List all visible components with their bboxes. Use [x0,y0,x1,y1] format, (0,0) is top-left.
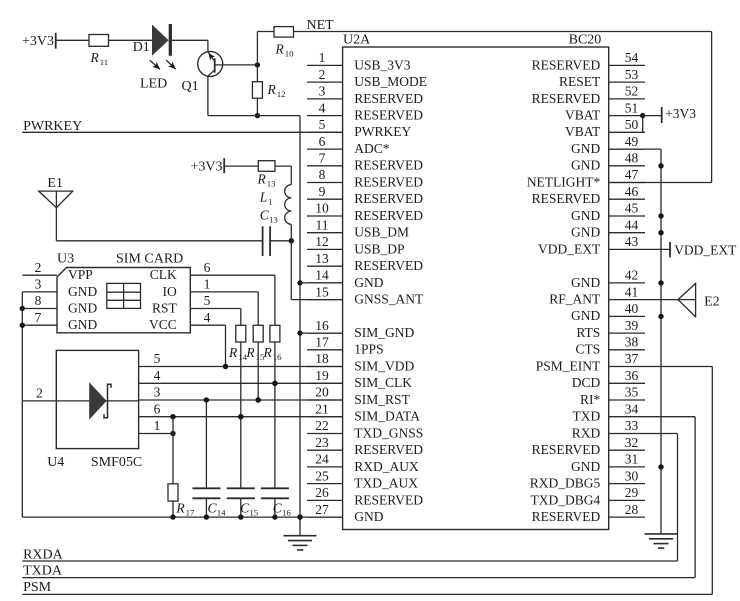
svg-text:USB_3V3: USB_3V3 [354,57,411,72]
svg-text:30: 30 [625,468,639,483]
svg-text:RESERVED: RESERVED [532,442,601,457]
svg-text:RESERVED: RESERVED [532,191,601,206]
svg-text:LED: LED [140,76,167,91]
svg-text:41: 41 [625,284,639,299]
svg-text:38: 38 [625,335,639,350]
svg-text:13: 13 [267,179,276,189]
svg-text:6: 6 [154,401,161,416]
svg-text:20: 20 [315,385,329,400]
svg-text:SIM_GND: SIM_GND [354,325,414,340]
svg-text:R: R [275,42,285,57]
svg-text:TXD_AUX: TXD_AUX [354,476,418,491]
svg-text:5: 5 [319,117,326,132]
svg-text:RESERVED: RESERVED [354,91,423,106]
svg-text:ADC*: ADC* [354,141,390,156]
svg-text:R: R [228,345,238,360]
svg-text:RESERVED: RESERVED [354,191,423,206]
svg-text:CLK: CLK [150,267,177,282]
svg-text:GND: GND [571,208,600,223]
svg-text:USB_MODE: USB_MODE [354,74,427,89]
svg-text:E1: E1 [47,176,63,191]
svg-text:37: 37 [625,351,639,366]
svg-text:14: 14 [315,268,329,283]
svg-text:VBAT: VBAT [565,124,601,139]
svg-text:VPP: VPP [68,267,93,282]
svg-text:23: 23 [315,435,329,450]
svg-text:5: 5 [204,293,211,308]
svg-text:15: 15 [249,508,258,518]
svg-text:GND: GND [68,300,97,315]
svg-text:TXD: TXD [573,409,601,424]
svg-text:9: 9 [319,184,326,199]
svg-text:52: 52 [625,84,639,99]
svg-text:GNSS_ANT: GNSS_ANT [354,292,424,307]
svg-text:16: 16 [315,318,329,333]
svg-text:46: 46 [625,184,639,199]
svg-text:2: 2 [35,260,42,275]
svg-text:16: 16 [273,352,282,362]
svg-text:7: 7 [319,151,326,166]
svg-text:RESERVED: RESERVED [532,91,601,106]
svg-text:U2A: U2A [343,32,371,47]
svg-text:USB_DM: USB_DM [354,225,409,240]
svg-text:35: 35 [625,385,639,400]
svg-text:RESERVED: RESERVED [354,492,423,507]
svg-text:40: 40 [625,301,639,316]
svg-text:22: 22 [315,418,329,433]
svg-text:CTS: CTS [576,342,601,357]
svg-text:+3V3: +3V3 [665,106,696,121]
svg-text:RXD_AUX: RXD_AUX [354,459,419,474]
svg-text:48: 48 [625,151,639,166]
svg-text:28: 28 [625,502,639,517]
svg-text:RESERVED: RESERVED [354,174,423,189]
svg-text:GND: GND [571,459,600,474]
svg-text:4: 4 [204,310,211,325]
svg-text:SIM_RST: SIM_RST [354,392,410,407]
svg-text:2: 2 [36,385,43,400]
svg-text:RESERVED: RESERVED [354,108,423,123]
svg-text:49: 49 [625,134,639,149]
svg-text:53: 53 [625,67,639,82]
svg-text:25: 25 [315,468,329,483]
svg-text:GND: GND [354,275,383,290]
svg-text:R: R [267,82,277,97]
svg-text:SIM_VDD: SIM_VDD [354,358,414,373]
svg-text:PWRKEY: PWRKEY [354,124,411,139]
svg-text:17: 17 [186,508,195,518]
svg-text:1: 1 [154,418,161,433]
svg-text:GND: GND [571,158,600,173]
svg-text:50: 50 [625,117,639,132]
svg-text:VDD_EXT: VDD_EXT [538,241,601,256]
svg-text:RESERVED: RESERVED [354,158,423,173]
svg-text:GND: GND [571,225,600,240]
svg-text:24: 24 [315,452,329,467]
svg-text:11: 11 [316,217,329,232]
svg-text:42: 42 [625,268,639,283]
svg-text:SIM_CLK: SIM_CLK [354,375,412,390]
svg-text:GND: GND [571,141,600,156]
svg-text:47: 47 [625,167,639,182]
svg-text:VDD_EXT: VDD_EXT [674,242,737,257]
svg-text:+3V3: +3V3 [190,160,222,175]
svg-text:SMF05C: SMF05C [91,455,142,470]
svg-text:15: 15 [315,284,329,299]
svg-text:VBAT: VBAT [565,108,601,123]
svg-text:16: 16 [282,508,291,518]
svg-text:NET: NET [307,18,335,33]
svg-text:8: 8 [35,293,42,308]
svg-text:12: 12 [277,89,286,99]
svg-text:PSM_EINT: PSM_EINT [536,358,601,373]
svg-text:45: 45 [625,201,639,216]
svg-text:TXD_GNSS: TXD_GNSS [354,425,423,440]
svg-text:RF_ANT: RF_ANT [549,292,601,307]
svg-text:1: 1 [268,197,272,207]
svg-text:4: 4 [319,100,326,115]
svg-text:18: 18 [315,351,329,366]
svg-text:1: 1 [319,50,326,65]
svg-text:3: 3 [154,385,161,400]
svg-text:U4: U4 [47,455,64,470]
svg-text:Q1: Q1 [182,79,199,94]
svg-text:U3: U3 [57,252,74,267]
svg-text:21: 21 [315,401,329,416]
svg-text:SIM_DATA: SIM_DATA [354,409,420,424]
svg-text:7: 7 [35,310,42,325]
svg-text:1: 1 [204,277,211,292]
svg-text:GND: GND [68,317,97,332]
svg-text:TXD_DBG4: TXD_DBG4 [531,492,601,507]
svg-text:D1: D1 [133,40,150,55]
svg-text:PSM: PSM [23,580,52,595]
svg-text:R: R [257,172,267,187]
svg-text:10: 10 [285,49,294,59]
svg-text:USB_DP: USB_DP [354,241,404,256]
svg-text:RST: RST [152,300,178,315]
svg-text:GND: GND [571,308,600,323]
svg-text:5: 5 [154,351,161,366]
svg-text:12: 12 [315,234,329,249]
svg-text:RXD_DBG5: RXD_DBG5 [530,476,601,491]
svg-text:10: 10 [315,201,329,216]
svg-text:8: 8 [319,167,326,182]
svg-text:27: 27 [315,502,329,517]
svg-text:RI*: RI* [580,392,601,407]
svg-text:BC20: BC20 [569,32,602,47]
svg-text:29: 29 [625,485,639,500]
svg-text:RESERVED: RESERVED [532,57,601,72]
svg-text:L: L [259,190,268,205]
svg-text:RXDA: RXDA [23,547,64,562]
svg-text:E2: E2 [704,294,720,309]
svg-text:11: 11 [100,57,108,67]
svg-text:VCC: VCC [149,317,177,332]
svg-text:36: 36 [625,368,639,383]
svg-text:2: 2 [319,67,326,82]
svg-text:33: 33 [625,418,639,433]
svg-text:RESERVED: RESERVED [532,509,601,524]
svg-text:DCD: DCD [572,375,601,390]
svg-text:GND: GND [571,275,600,290]
svg-text:R: R [245,345,255,360]
svg-text:1PPS: 1PPS [354,342,383,357]
svg-text:17: 17 [315,335,329,350]
svg-text:4: 4 [154,368,161,383]
svg-text:3: 3 [35,277,42,292]
svg-text:R: R [263,345,273,360]
svg-text:SIM CARD: SIM CARD [116,252,183,267]
svg-text:19: 19 [315,368,329,383]
svg-text:RESERVED: RESERVED [354,442,423,457]
svg-text:43: 43 [625,234,639,249]
svg-text:RESERVED: RESERVED [354,208,423,223]
svg-text:13: 13 [269,215,278,225]
svg-text:3: 3 [319,84,326,99]
svg-text:54: 54 [625,50,639,65]
svg-text:44: 44 [625,217,639,232]
svg-text:NETLIGHT*: NETLIGHT* [527,174,601,189]
svg-text:6: 6 [204,260,211,275]
svg-text:RTS: RTS [576,325,600,340]
svg-text:+3V3: +3V3 [22,34,54,49]
svg-text:R: R [175,501,185,516]
svg-text:32: 32 [625,435,639,450]
svg-text:RESERVED: RESERVED [354,258,423,273]
svg-text:IO: IO [163,284,177,299]
svg-text:26: 26 [315,485,329,500]
svg-text:34: 34 [625,401,639,416]
svg-text:RESET: RESET [559,74,601,89]
svg-text:RXD: RXD [572,425,601,440]
svg-text:GND: GND [354,509,383,524]
svg-text:6: 6 [319,134,326,149]
svg-text:39: 39 [625,318,639,333]
svg-text:TXDA: TXDA [23,564,63,579]
svg-text:13: 13 [315,251,329,266]
svg-text:R: R [90,50,100,65]
svg-text:51: 51 [625,100,639,115]
svg-text:14: 14 [217,508,226,518]
svg-text:GND: GND [68,284,97,299]
svg-text:31: 31 [625,452,639,467]
